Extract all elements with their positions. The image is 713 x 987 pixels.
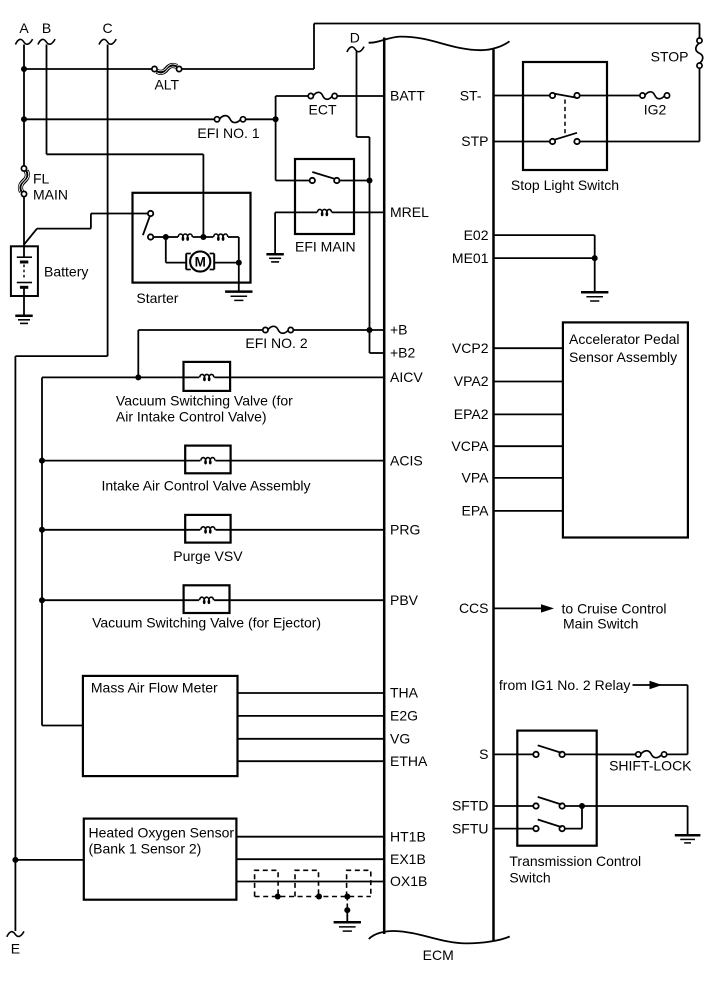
svg-text:Heated Oxygen Sensor: Heated Oxygen Sensor <box>89 825 235 841</box>
svg-text:Battery: Battery <box>44 264 88 280</box>
svg-text:Switch: Switch <box>509 870 550 886</box>
svg-text:A: A <box>19 20 29 36</box>
svg-text:SFTD: SFTD <box>452 798 489 814</box>
svg-text:EFI NO. 2: EFI NO. 2 <box>245 335 307 351</box>
svg-text:PRG: PRG <box>390 522 420 538</box>
svg-text:VPA: VPA <box>462 470 490 486</box>
svg-text:(Bank 1 Sensor 2): (Bank 1 Sensor 2) <box>89 841 202 857</box>
svg-text:C: C <box>103 20 113 36</box>
svg-text:ST-: ST- <box>460 88 482 104</box>
svg-text:THA: THA <box>390 685 419 701</box>
svg-text:Sensor Assembly: Sensor Assembly <box>569 349 677 365</box>
svg-text:CCS: CCS <box>459 600 489 616</box>
svg-text:SFTU: SFTU <box>452 820 489 836</box>
svg-text:Stop Light Switch: Stop Light Switch <box>511 177 619 193</box>
svg-text:ALT: ALT <box>154 77 179 93</box>
svg-text:ECT: ECT <box>309 102 337 118</box>
svg-text:MREL: MREL <box>390 204 429 220</box>
svg-text:ACIS: ACIS <box>390 452 423 468</box>
svg-text:AICV: AICV <box>390 369 423 385</box>
svg-text:S: S <box>479 746 488 762</box>
svg-text:VCPA: VCPA <box>451 438 489 454</box>
svg-text:OX1B: OX1B <box>390 873 427 889</box>
svg-text:MAIN: MAIN <box>33 187 68 203</box>
svg-text:from IG1 No. 2 Relay: from IG1 No. 2 Relay <box>499 677 631 693</box>
svg-text:E: E <box>11 941 20 957</box>
svg-text:+B2: +B2 <box>390 345 416 361</box>
svg-text:D: D <box>350 30 360 46</box>
svg-text:HT1B: HT1B <box>390 828 426 844</box>
svg-text:E2G: E2G <box>390 708 418 724</box>
svg-text:EPA2: EPA2 <box>454 406 489 422</box>
svg-text:B: B <box>42 20 51 36</box>
svg-text:FL: FL <box>33 171 50 187</box>
svg-text:BATT: BATT <box>390 88 425 104</box>
svg-text:ETHA: ETHA <box>390 753 428 769</box>
svg-text:EPA: EPA <box>462 503 490 519</box>
svg-text:Purge VSV: Purge VSV <box>173 548 243 564</box>
svg-text:Vacuum Switching Valve (for Ej: Vacuum Switching Valve (for Ejector) <box>92 615 321 631</box>
svg-text:Vacuum Switching Valve (for: Vacuum Switching Valve (for <box>116 393 293 409</box>
svg-text:STP: STP <box>461 133 488 149</box>
svg-text:Air Intake Control Valve): Air Intake Control Valve) <box>116 409 267 425</box>
svg-text:EFI MAIN: EFI MAIN <box>295 239 356 255</box>
svg-text:EFI NO. 1: EFI NO. 1 <box>197 125 259 141</box>
svg-text:Transmission Control: Transmission Control <box>509 853 641 869</box>
svg-text:VCP2: VCP2 <box>452 340 489 356</box>
svg-text:VPA2: VPA2 <box>454 373 489 389</box>
svg-text:M: M <box>195 254 206 269</box>
svg-text:Starter: Starter <box>136 290 178 306</box>
svg-text:Mass Air Flow Meter: Mass Air Flow Meter <box>91 680 218 696</box>
svg-text:+B: +B <box>390 322 408 338</box>
svg-text:E02: E02 <box>464 227 489 243</box>
svg-text:PBV: PBV <box>390 592 419 608</box>
svg-text:ME01: ME01 <box>452 250 489 266</box>
svg-text:STOP: STOP <box>651 49 689 65</box>
svg-text:ECM: ECM <box>423 947 454 963</box>
svg-text:EX1B: EX1B <box>390 851 426 867</box>
svg-text:to Cruise Control: to Cruise Control <box>562 601 667 617</box>
svg-text:Main Switch: Main Switch <box>563 616 638 632</box>
svg-text:VG: VG <box>390 731 410 747</box>
svg-text:Accelerator Pedal: Accelerator Pedal <box>569 331 680 347</box>
svg-text:Intake Air Control Valve Assem: Intake Air Control Valve Assembly <box>101 478 310 494</box>
svg-text:IG2: IG2 <box>644 102 667 118</box>
svg-text:SHIFT-LOCK: SHIFT-LOCK <box>609 757 692 773</box>
